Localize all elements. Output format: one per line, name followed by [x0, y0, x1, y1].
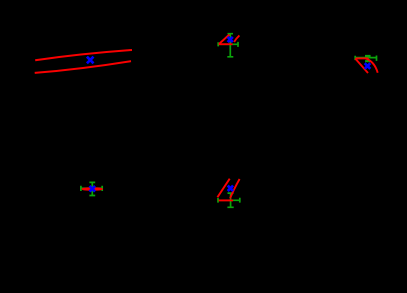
- node: E2 center mark (blue X): [228, 37, 233, 42]
- node: E4 green x-extent bar: [218, 198, 240, 203]
- node: E2 green y-extent bar: [227, 34, 233, 57]
- wire: E2 red right edge: [234, 35, 239, 42]
- node: E2 green x-extent bar: [218, 42, 238, 47]
- wire: E3 red flat ellipse: [82, 188, 102, 190]
- wire: E4 red right edge: [230, 179, 240, 198]
- wire: E4 red left edge: [217, 179, 229, 198]
- node: E5 green x-extent bar: [355, 56, 376, 61]
- node: E1 center mark (blue X): [87, 57, 94, 64]
- wire: E5 red left edge: [355, 59, 368, 73]
- node: E4 green y-extent bar: [227, 193, 233, 207]
- node: E5 green y-extent bar: [365, 56, 371, 62]
- wire: E5 red top line: [355, 57, 368, 59]
- wire: E1 upper arc: [35, 50, 132, 60]
- wire: E4 red baseline: [219, 199, 233, 201]
- node: E4 center mark (blue X): [228, 186, 233, 191]
- wire: E2 red baseline: [219, 43, 233, 45]
- node: E3 green x-extent bar: [81, 186, 102, 191]
- node: E5 center mark (blue X): [365, 63, 371, 69]
- node: E3 center mark (blue X): [90, 186, 96, 192]
- wire: E1 lower arc: [35, 61, 131, 73]
- wire: E2 red left edge: [219, 35, 229, 45]
- node: E3 green y-extent bar: [89, 182, 95, 195]
- ellipse E1 (large flat ellipse, top-left): [35, 50, 132, 73]
- wire: E5 red right edge: [365, 58, 378, 72]
